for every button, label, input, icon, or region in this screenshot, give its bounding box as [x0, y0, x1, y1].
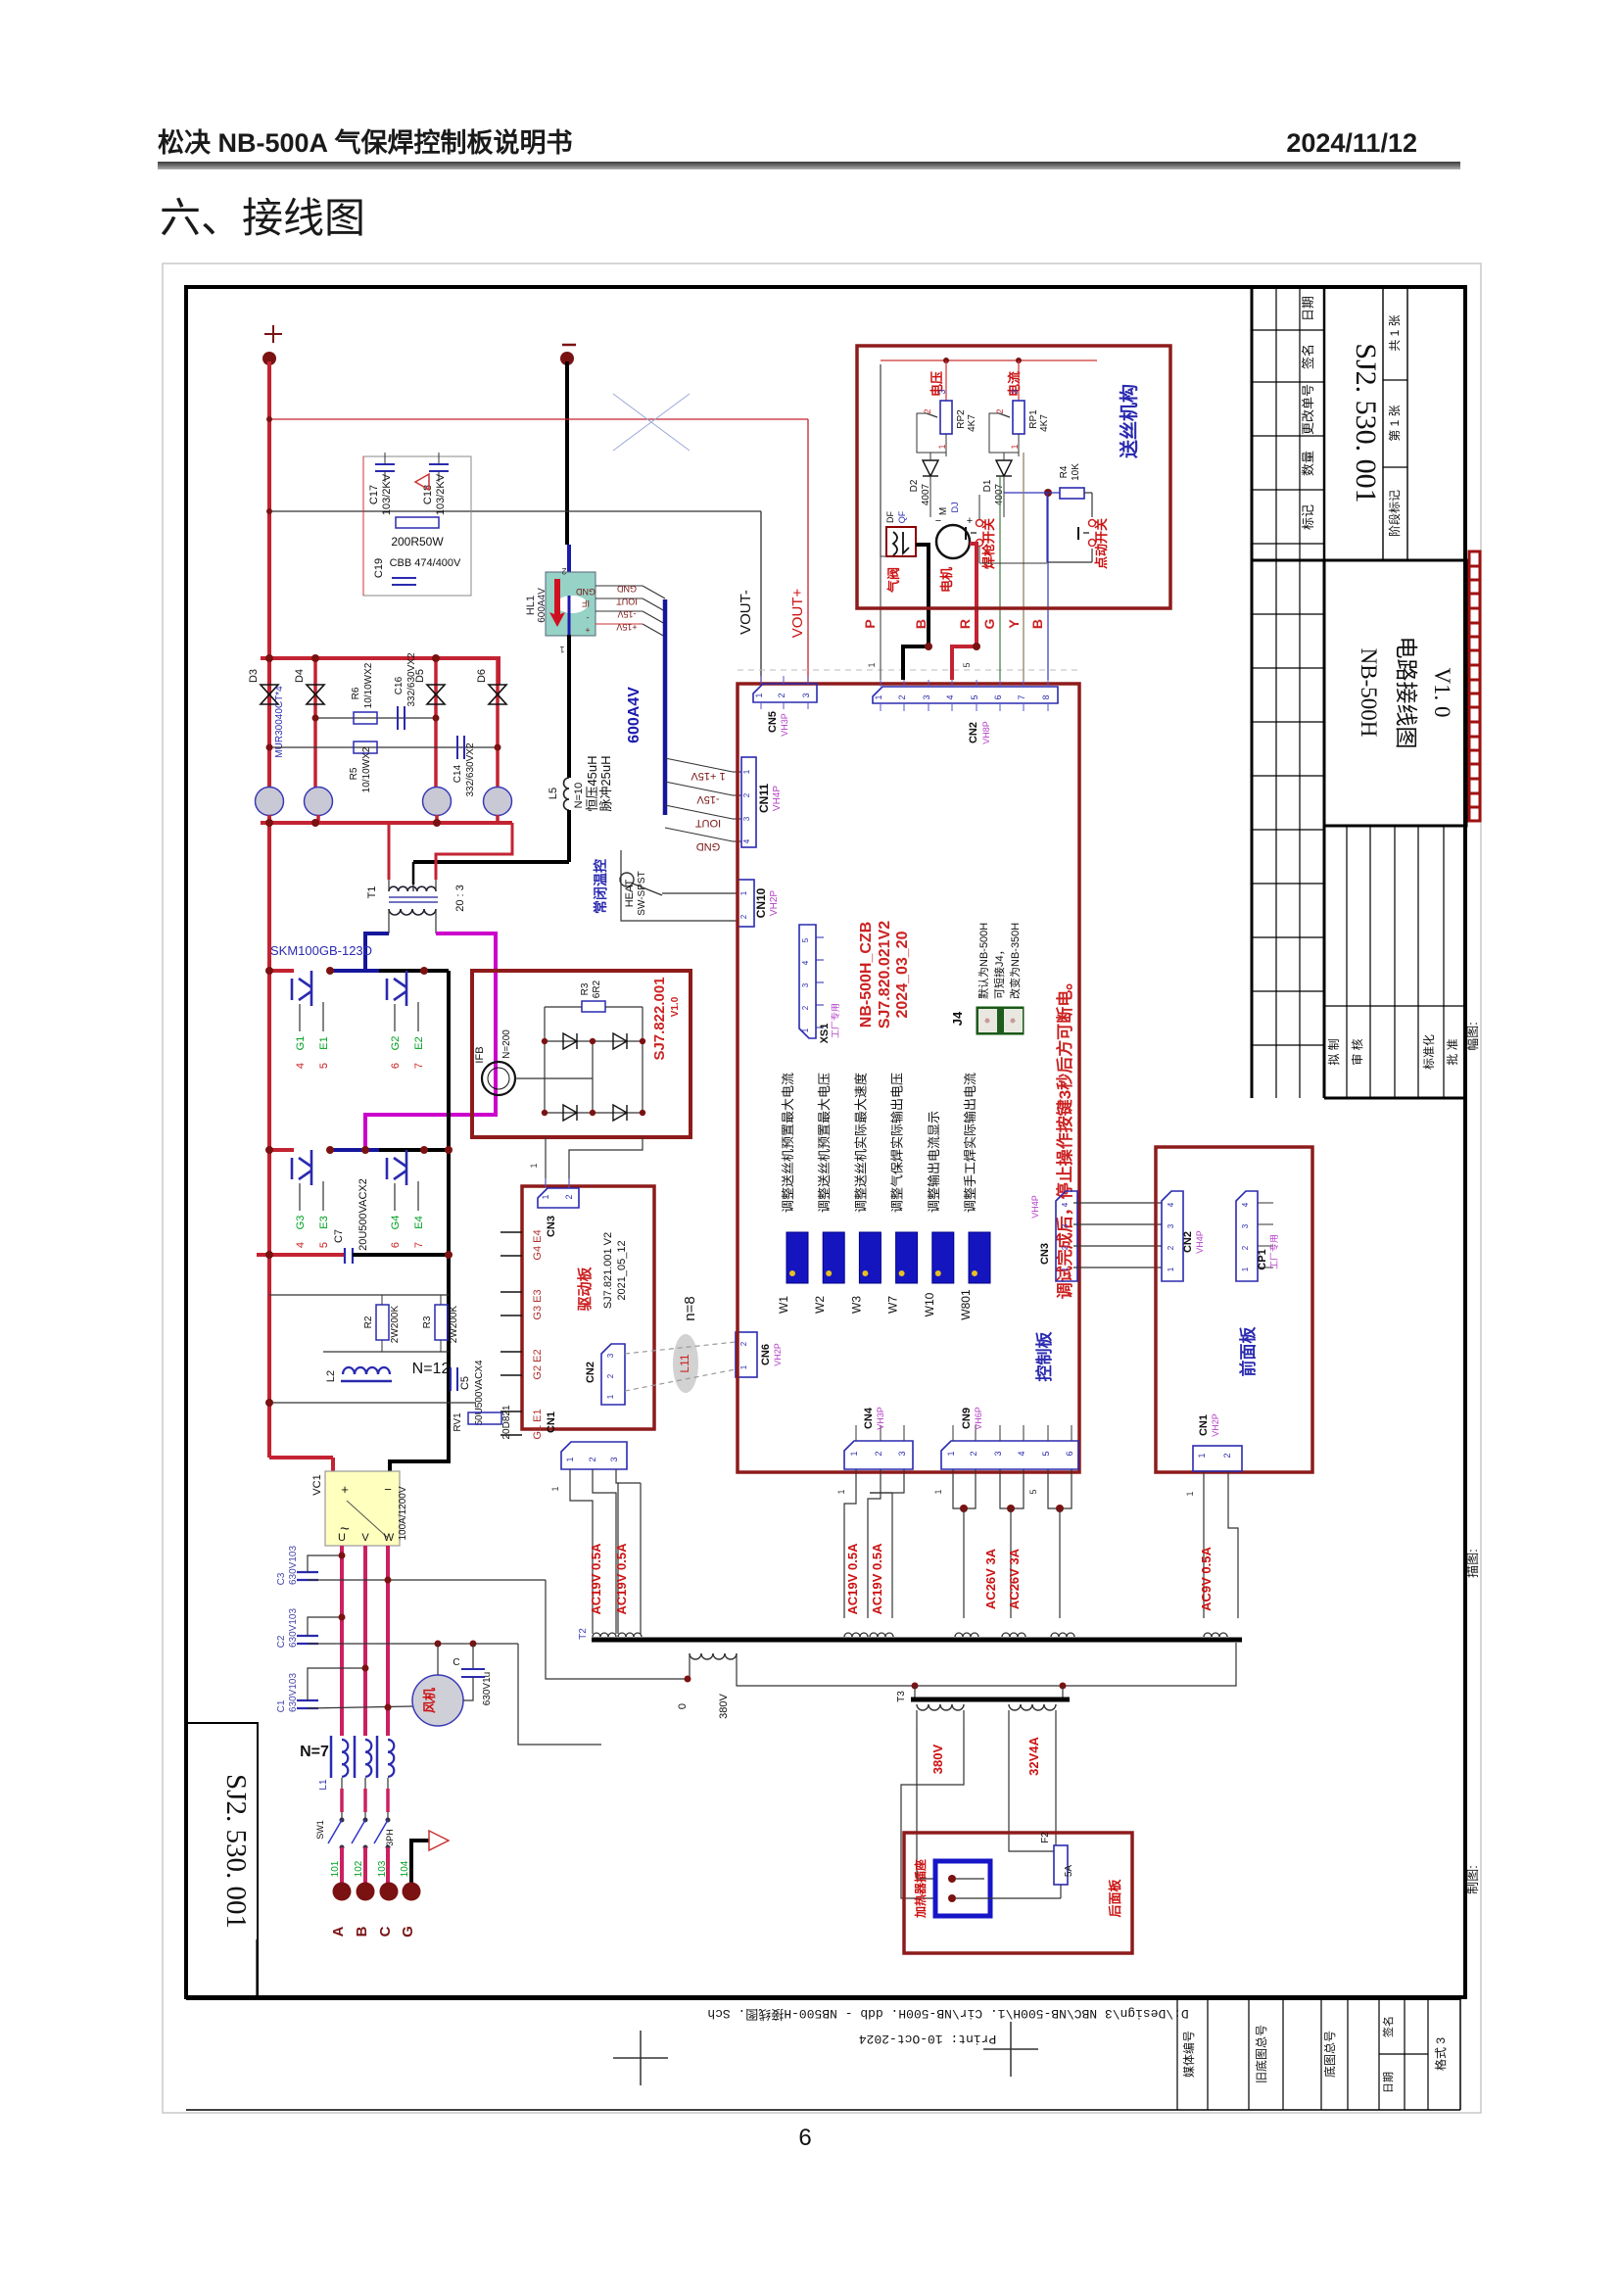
- svg-text:-15V: -15V: [617, 609, 636, 619]
- svg-text:7: 7: [413, 1063, 425, 1069]
- svg-text:CN4: CN4: [863, 1407, 875, 1429]
- svg-text:媒体编号: 媒体编号: [1181, 2031, 1196, 2078]
- svg-text:1: 1: [739, 1364, 748, 1369]
- svg-text:G2: G2: [390, 1036, 402, 1051]
- svg-text:5: 5: [318, 1063, 330, 1069]
- svg-text:CN1: CN1: [1198, 1414, 1210, 1436]
- svg-text:6: 6: [390, 1063, 402, 1069]
- svg-text:2024/11/12: 2024/11/12: [1286, 128, 1417, 158]
- svg-text:数量: 数量: [1301, 451, 1315, 476]
- svg-text:风机: 风机: [422, 1688, 437, 1713]
- svg-text:1: 1: [933, 1489, 943, 1494]
- svg-text:改变为NB-350H: 改变为NB-350H: [1008, 923, 1022, 999]
- svg-text:HEAT: HEAT: [624, 879, 636, 907]
- svg-text:1: 1: [874, 694, 883, 699]
- svg-text:CN1: CN1: [546, 1411, 557, 1433]
- svg-text:10K: 10K: [1071, 463, 1081, 481]
- svg-text:更改单号: 更改单号: [1301, 384, 1315, 435]
- svg-text:E3: E3: [318, 1216, 330, 1228]
- svg-text:CN11: CN11: [757, 784, 771, 813]
- svg-text:恒压45uH: 恒压45uH: [585, 755, 599, 811]
- svg-text:4007: 4007: [921, 483, 931, 505]
- svg-text:5: 5: [1041, 1451, 1051, 1456]
- svg-text:签名: 签名: [1301, 344, 1315, 369]
- svg-text:1: 1: [754, 693, 764, 697]
- svg-text:103/2KV: 103/2KV: [435, 473, 447, 515]
- svg-text:CN6: CN6: [760, 1344, 772, 1365]
- svg-text:P: P: [862, 619, 878, 628]
- svg-text:D4: D4: [294, 669, 306, 683]
- svg-text:1: 1: [541, 1194, 550, 1199]
- svg-text:默认为NB-500H: 默认为NB-500H: [977, 923, 990, 999]
- svg-text:2021_05_12: 2021_05_12: [616, 1240, 628, 1300]
- svg-text:T1: T1: [366, 886, 378, 899]
- svg-text:IOUT: IOUT: [616, 597, 638, 606]
- svg-text:5A: 5A: [1064, 1865, 1074, 1878]
- svg-text:阶段标记: 阶段标记: [1387, 490, 1402, 537]
- svg-text:L5: L5: [548, 788, 559, 799]
- svg-text:3: 3: [801, 693, 811, 697]
- svg-text:Print: 10-Oct-2024: Print: 10-Oct-2024: [859, 2032, 997, 2046]
- svg-text:C1: C1: [276, 1699, 287, 1712]
- svg-text:VH2P: VH2P: [1211, 1413, 1220, 1437]
- svg-text:1 +15V: 1 +15V: [691, 770, 726, 782]
- svg-text:-: -: [587, 613, 590, 623]
- svg-text:N=200: N=200: [501, 1029, 512, 1059]
- svg-text:4: 4: [295, 1242, 307, 1248]
- svg-text:N=7: N=7: [300, 1744, 329, 1760]
- svg-text:六、接线图: 六、接线图: [160, 195, 365, 241]
- svg-text:D:\Design\3 NBC\NB-500H\1. Cir: D:\Design\3 NBC\NB-500H\1. Cir\NB-500H. …: [707, 2006, 1188, 2022]
- svg-text:可短接J4，: 可短接J4，: [992, 944, 1006, 999]
- svg-text:AC19V 0.5A: AC19V 0.5A: [870, 1543, 884, 1615]
- svg-text:0: 0: [677, 1703, 689, 1709]
- svg-text:SJ2. 530. 001: SJ2. 530. 001: [1350, 343, 1382, 502]
- svg-text:W: W: [384, 1532, 395, 1544]
- svg-text:630V103: 630V103: [288, 1608, 299, 1648]
- svg-text:380V: 380V: [930, 1744, 945, 1774]
- svg-text:调整输出电流显示: 调整输出电流显示: [927, 1111, 941, 1213]
- svg-text:CBB 474/400V: CBB 474/400V: [390, 557, 461, 569]
- svg-text:AC26V 3A: AC26V 3A: [983, 1548, 998, 1609]
- svg-text:4: 4: [945, 694, 955, 699]
- svg-text:F2: F2: [1040, 1832, 1051, 1843]
- svg-text:−: −: [384, 1482, 392, 1497]
- svg-text:工厂专用: 工厂专用: [1268, 1234, 1279, 1269]
- svg-text:审 核: 审 核: [1350, 1038, 1364, 1065]
- svg-text:VH3P: VH3P: [876, 1407, 885, 1430]
- svg-text:R3: R3: [422, 1315, 433, 1328]
- svg-text:4: 4: [1167, 1202, 1175, 1207]
- svg-text:V: V: [361, 1532, 369, 1544]
- svg-text:VOUT-: VOUT-: [738, 590, 754, 635]
- svg-text:L11: L11: [678, 1354, 691, 1372]
- svg-text:20 : 3: 20 : 3: [454, 885, 466, 912]
- svg-text:1: 1: [1241, 1267, 1250, 1271]
- svg-text:32V4A: 32V4A: [1026, 1737, 1041, 1776]
- svg-text:G3: G3: [295, 1216, 307, 1230]
- svg-text:8: 8: [1041, 694, 1051, 699]
- svg-text:2: 2: [777, 693, 786, 697]
- svg-text:DJ: DJ: [950, 502, 960, 513]
- svg-text:CN2: CN2: [585, 1362, 596, 1383]
- svg-text:D2: D2: [909, 479, 920, 492]
- svg-text:C: C: [377, 1926, 394, 1937]
- svg-text:G2 E2: G2 E2: [532, 1349, 544, 1379]
- svg-text:CN5: CN5: [767, 711, 779, 733]
- svg-text:CP1: CP1: [1257, 1249, 1268, 1269]
- svg-text:CN2: CN2: [968, 722, 979, 743]
- svg-text:104: 104: [400, 1860, 410, 1877]
- svg-text:5: 5: [1028, 1489, 1038, 1494]
- svg-text:工厂专用: 工厂专用: [830, 1003, 840, 1038]
- svg-text:脉冲25uH: 脉冲25uH: [598, 755, 613, 811]
- svg-text:2: 2: [1061, 1245, 1070, 1250]
- svg-text:7: 7: [1017, 694, 1026, 699]
- svg-text:描图:: 描图:: [1465, 1549, 1480, 1578]
- svg-text:NB-500H: NB-500H: [1357, 648, 1381, 738]
- svg-text:CN3: CN3: [546, 1216, 557, 1237]
- svg-text:电机: 电机: [939, 567, 954, 593]
- svg-text:G4: G4: [390, 1216, 402, 1230]
- svg-text:E4: E4: [413, 1216, 425, 1228]
- svg-text:SW1: SW1: [315, 1820, 325, 1840]
- svg-text:幅图:: 幅图:: [1465, 1022, 1480, 1051]
- svg-text:G1: G1: [295, 1036, 307, 1051]
- svg-text:G: G: [400, 1926, 416, 1937]
- svg-text:M: M: [938, 507, 949, 515]
- svg-text:1: 1: [849, 1451, 859, 1456]
- svg-text:SJ7.820.021V2: SJ7.820.021V2: [877, 921, 893, 1028]
- svg-text:QF: QF: [897, 510, 907, 523]
- svg-text:4: 4: [1241, 1202, 1250, 1207]
- svg-text:Y: Y: [1006, 619, 1022, 629]
- svg-text:3: 3: [1241, 1223, 1250, 1228]
- svg-text:3: 3: [1010, 389, 1020, 394]
- svg-text:DF: DF: [885, 511, 895, 523]
- svg-text:1: 1: [1061, 1267, 1070, 1271]
- svg-text:VH2P: VH2P: [769, 890, 780, 916]
- svg-text:T2: T2: [578, 1628, 589, 1640]
- svg-text:W801: W801: [959, 1289, 973, 1320]
- svg-text:驱动板: 驱动板: [576, 1267, 594, 1312]
- svg-text:10/10WX2: 10/10WX2: [363, 662, 374, 708]
- svg-text:R4: R4: [1059, 465, 1070, 478]
- svg-text:W7: W7: [886, 1296, 900, 1314]
- svg-text:C2: C2: [276, 1635, 287, 1648]
- svg-text:R6: R6: [351, 687, 361, 699]
- svg-text:调整气保焊实际输出电压: 调整气保焊实际输出电压: [890, 1073, 905, 1213]
- svg-text:1: 1: [565, 1457, 575, 1461]
- svg-text:332/630VX2: 332/630VX2: [406, 652, 417, 706]
- svg-text:4: 4: [742, 838, 751, 843]
- svg-text:6R2: 6R2: [592, 980, 602, 998]
- svg-text:VH3P: VH3P: [780, 713, 789, 737]
- svg-text:SKM100GB-123D: SKM100GB-123D: [270, 943, 372, 958]
- svg-text:XS1: XS1: [819, 1024, 831, 1044]
- svg-text:C17: C17: [368, 485, 380, 504]
- svg-text:点动开关: 点动开关: [1094, 518, 1109, 569]
- svg-text:松决 NB-500A 气保焊控制板说明书: 松决 NB-500A 气保焊控制板说明书: [158, 128, 573, 158]
- svg-text:调整送丝机预置最大电流: 调整送丝机预置最大电流: [781, 1073, 795, 1213]
- svg-text:N=10: N=10: [573, 783, 585, 809]
- svg-text:签名: 签名: [1381, 2016, 1395, 2037]
- svg-text:n=8: n=8: [682, 1296, 698, 1320]
- svg-text:底图总号: 底图总号: [1322, 2031, 1337, 2078]
- svg-text:IOUT: IOUT: [695, 817, 722, 829]
- svg-text:RP1: RP1: [1028, 409, 1039, 429]
- svg-text:VH4P: VH4P: [1030, 1195, 1040, 1219]
- svg-text:100A/1200V: 100A/1200V: [398, 1486, 408, 1540]
- svg-text:2: 2: [801, 1005, 810, 1010]
- svg-text:SW-SPST: SW-SPST: [637, 871, 647, 915]
- svg-text:50U500VACX4: 50U500VACX4: [474, 1360, 485, 1426]
- svg-text:103/2KV: 103/2KV: [381, 473, 393, 515]
- svg-text:C: C: [453, 1657, 459, 1668]
- svg-text:6: 6: [993, 694, 1003, 699]
- svg-text:4: 4: [295, 1063, 307, 1069]
- svg-text:SJ2. 530. 001: SJ2. 530. 001: [220, 1774, 252, 1929]
- svg-text:6: 6: [390, 1242, 402, 1248]
- svg-text:1: 1: [742, 769, 751, 774]
- svg-text:AC19V 0.5A: AC19V 0.5A: [614, 1543, 629, 1615]
- svg-text:200R50W: 200R50W: [391, 535, 444, 549]
- svg-text:W10: W10: [923, 1292, 936, 1316]
- svg-text:V1. 0: V1. 0: [1430, 667, 1454, 717]
- svg-text:4K7: 4K7: [967, 414, 977, 432]
- svg-text:RV1: RV1: [453, 1412, 463, 1432]
- svg-text:B: B: [913, 619, 929, 629]
- svg-text:4K7: 4K7: [1039, 414, 1050, 432]
- svg-text:380V: 380V: [718, 1693, 730, 1718]
- svg-text:调整送丝机预置最大电压: 调整送丝机预置最大电压: [817, 1073, 832, 1213]
- svg-text:4: 4: [801, 960, 810, 965]
- svg-text:2: 2: [739, 1341, 748, 1346]
- svg-text:CN9: CN9: [961, 1408, 973, 1429]
- svg-text:电路接线图: 电路接线图: [1394, 637, 1419, 749]
- svg-text:-15V: -15V: [696, 793, 720, 805]
- svg-text:VH4P: VH4P: [1195, 1230, 1205, 1254]
- svg-text:J4: J4: [950, 1011, 965, 1026]
- svg-text:送丝机构: 送丝机构: [1118, 384, 1140, 458]
- svg-text:2: 2: [561, 566, 566, 576]
- svg-text:630V103: 630V103: [288, 1673, 299, 1712]
- svg-text:G1 E1: G1 E1: [532, 1409, 544, 1439]
- svg-text:GND: GND: [576, 587, 596, 597]
- svg-text:1: 1: [529, 1163, 539, 1168]
- svg-text:3PH: 3PH: [385, 1829, 395, 1846]
- svg-text:+: +: [341, 1482, 349, 1497]
- svg-text:IF: IF: [581, 598, 590, 608]
- svg-text:2: 2: [606, 1373, 615, 1378]
- svg-text:焊枪开关: 焊枪开关: [981, 518, 996, 569]
- svg-text:1: 1: [559, 645, 564, 654]
- svg-text:1: 1: [1167, 1267, 1175, 1271]
- svg-text:加热器插座: 加热器插座: [913, 1859, 928, 1919]
- svg-text:C16: C16: [394, 676, 405, 694]
- svg-text:1: 1: [836, 1489, 846, 1494]
- svg-text:V1.0: V1.0: [670, 996, 681, 1017]
- svg-text:600A4V: 600A4V: [537, 588, 548, 623]
- svg-text:+: +: [585, 625, 590, 635]
- svg-text:G4 E4: G4 E4: [532, 1229, 544, 1260]
- svg-text:旧底图总号: 旧底图总号: [1254, 2025, 1268, 2083]
- svg-text:3: 3: [606, 1353, 615, 1358]
- svg-text:1: 1: [801, 1028, 810, 1032]
- svg-text:标准化: 标准化: [1422, 1034, 1436, 1070]
- svg-text:3: 3: [742, 816, 751, 821]
- svg-text:2: 2: [874, 1451, 883, 1456]
- svg-text:1: 1: [606, 1394, 615, 1399]
- svg-text:日期: 日期: [1301, 296, 1315, 321]
- svg-text:3: 3: [1061, 1223, 1070, 1228]
- svg-text:+15V: +15V: [616, 622, 637, 632]
- svg-text:630V1u: 630V1u: [482, 1672, 493, 1705]
- svg-text:4: 4: [1061, 1202, 1070, 1207]
- svg-text:AC9V 0.5A: AC9V 0.5A: [1199, 1547, 1214, 1611]
- svg-text:G3 E3: G3 E3: [532, 1289, 544, 1319]
- svg-text:C3: C3: [276, 1572, 287, 1585]
- svg-text:HL1: HL1: [525, 596, 537, 615]
- svg-text:GND: GND: [617, 584, 638, 594]
- svg-text:5: 5: [970, 694, 979, 699]
- svg-text:−: −: [935, 515, 941, 527]
- svg-text:G: G: [981, 618, 997, 629]
- svg-text:VH4P: VH4P: [772, 786, 783, 811]
- svg-text:2: 2: [897, 694, 907, 699]
- svg-text:2W200K: 2W200K: [390, 1305, 401, 1343]
- svg-text:5: 5: [801, 937, 810, 942]
- svg-text:101: 101: [330, 1860, 341, 1877]
- svg-text:1: 1: [1197, 1453, 1207, 1458]
- svg-text:1: 1: [946, 1451, 956, 1456]
- svg-text:2: 2: [564, 1194, 574, 1199]
- svg-text:W1: W1: [777, 1296, 790, 1314]
- svg-text:后面板: 后面板: [1108, 1879, 1122, 1918]
- svg-text:VH2P: VH2P: [773, 1343, 783, 1366]
- svg-text:调整手工焊实际输出电流: 调整手工焊实际输出电流: [963, 1073, 977, 1213]
- svg-text:3: 3: [922, 694, 931, 699]
- svg-text:1: 1: [867, 662, 877, 667]
- svg-text:调整送丝机实际最大速度: 调整送丝机实际最大速度: [853, 1073, 868, 1213]
- svg-text:前面板: 前面板: [1238, 1326, 1258, 1377]
- svg-text:C19: C19: [373, 558, 385, 578]
- svg-text:GND: GND: [696, 840, 721, 852]
- svg-text:D1: D1: [982, 479, 993, 492]
- svg-text:1: 1: [1185, 1491, 1195, 1496]
- svg-text:3: 3: [993, 1451, 1003, 1456]
- svg-text:VOUT+: VOUT+: [789, 589, 806, 639]
- svg-text:AC19V 0.5A: AC19V 0.5A: [845, 1543, 860, 1615]
- svg-text:R2: R2: [363, 1315, 374, 1328]
- svg-text:2: 2: [969, 1451, 978, 1456]
- svg-text:VH6P: VH6P: [974, 1407, 983, 1430]
- svg-text:2: 2: [588, 1457, 597, 1461]
- svg-text:日期: 日期: [1382, 2072, 1395, 2093]
- svg-text:1: 1: [739, 890, 748, 895]
- svg-text:C7: C7: [333, 1229, 345, 1243]
- svg-text:R3: R3: [580, 982, 591, 995]
- svg-text:3: 3: [609, 1457, 619, 1461]
- svg-text:常闭温控: 常闭温控: [593, 859, 608, 914]
- svg-text:10/10WX2: 10/10WX2: [361, 746, 372, 792]
- svg-text:RP2: RP2: [956, 409, 967, 429]
- svg-text:R5: R5: [349, 767, 359, 780]
- svg-text:共 1 张: 共 1 张: [1388, 314, 1402, 351]
- svg-text:2W200K: 2W200K: [449, 1305, 459, 1343]
- svg-text:AC19V 0.5A: AC19V 0.5A: [589, 1543, 603, 1615]
- svg-text:5: 5: [962, 662, 972, 667]
- svg-text:批 准: 批 准: [1445, 1038, 1459, 1065]
- svg-text:D6: D6: [476, 669, 488, 683]
- svg-text:第 1 张: 第 1 张: [1388, 405, 1402, 441]
- svg-text:630V103: 630V103: [288, 1546, 299, 1585]
- svg-text:6: 6: [1065, 1451, 1074, 1456]
- svg-text:20U500VACX2: 20U500VACX2: [357, 1178, 369, 1251]
- svg-text:控制板: 控制板: [1034, 1331, 1054, 1382]
- svg-text:D3: D3: [248, 669, 260, 683]
- svg-text:5: 5: [318, 1242, 330, 1248]
- svg-text:C5: C5: [459, 1376, 471, 1390]
- svg-text:2: 2: [1222, 1453, 1232, 1458]
- svg-text:CN10: CN10: [754, 887, 768, 918]
- svg-text:W2: W2: [813, 1296, 827, 1314]
- svg-text:B: B: [1029, 619, 1045, 629]
- svg-text:NB-500H_CZB: NB-500H_CZB: [858, 922, 875, 1028]
- svg-text:CN3: CN3: [1039, 1243, 1051, 1265]
- svg-text:T3: T3: [896, 1691, 907, 1702]
- svg-text:102: 102: [354, 1860, 364, 1877]
- svg-text:6: 6: [798, 2125, 811, 2151]
- svg-text:制图:: 制图:: [1465, 1865, 1480, 1894]
- svg-text:103: 103: [377, 1860, 388, 1877]
- svg-text:VH8P: VH8P: [981, 721, 991, 744]
- svg-text:A: A: [330, 1926, 347, 1937]
- svg-text:E2: E2: [413, 1036, 425, 1049]
- svg-text:3: 3: [897, 1451, 907, 1456]
- svg-text:7: 7: [413, 1242, 425, 1248]
- svg-text:拟 制: 拟 制: [1327, 1038, 1341, 1065]
- svg-text:N=12: N=12: [412, 1361, 451, 1377]
- svg-text:气阀: 气阀: [886, 567, 901, 593]
- svg-text:3: 3: [937, 389, 947, 394]
- svg-text:4: 4: [1017, 1451, 1026, 1456]
- svg-text:IFB: IFB: [474, 1046, 486, 1063]
- svg-text:W3: W3: [849, 1296, 863, 1314]
- svg-text:B: B: [354, 1926, 370, 1937]
- svg-text:U: U: [338, 1532, 346, 1544]
- svg-text:CN2: CN2: [1182, 1231, 1194, 1253]
- svg-text:L2: L2: [325, 1370, 337, 1382]
- svg-text:3: 3: [801, 982, 810, 987]
- svg-text:VC1: VC1: [311, 1474, 323, 1495]
- svg-text:L1: L1: [318, 1779, 329, 1791]
- svg-text:2: 2: [1241, 1245, 1250, 1250]
- svg-text:AC26V 3A: AC26V 3A: [1007, 1548, 1022, 1609]
- svg-text:600A4V: 600A4V: [626, 687, 643, 743]
- svg-text:1: 1: [550, 1486, 560, 1491]
- svg-text:332/630VX2: 332/630VX2: [465, 742, 476, 796]
- svg-text:2: 2: [739, 914, 748, 919]
- svg-text:C14: C14: [453, 764, 463, 783]
- svg-text:20D821: 20D821: [501, 1405, 512, 1439]
- svg-text:3: 3: [1167, 1223, 1175, 1228]
- svg-text:2: 2: [742, 792, 751, 797]
- svg-text:R: R: [957, 619, 973, 629]
- svg-text:SJ7.821.001 V2: SJ7.821.001 V2: [602, 1232, 614, 1309]
- svg-text:2: 2: [1167, 1245, 1175, 1250]
- svg-text:标记: 标记: [1301, 504, 1315, 530]
